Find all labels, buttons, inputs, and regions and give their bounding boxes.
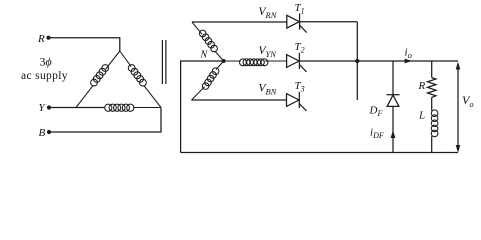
wire cathode bus vertical T1-T2-T3 <box>356 22 358 100</box>
wire DF branch upper <box>392 61 394 95</box>
svg-text:ac supply: ac supply <box>21 70 68 82</box>
thyristor T1 <box>287 14 307 33</box>
wire VRN line to thyristor T1 <box>192 21 287 23</box>
transformer core bars <box>162 40 166 84</box>
terminal Y <box>47 105 51 109</box>
arrow iDF <box>391 130 396 138</box>
diode DF <box>387 95 400 107</box>
thyristor T2 <box>287 53 307 72</box>
svg-text:Y: Y <box>39 102 47 114</box>
primary winding delta left side <box>76 51 120 108</box>
arrow Vo measurement <box>456 62 461 153</box>
wire B to delta right vertex <box>49 108 161 133</box>
svg-text:VYN: VYN <box>259 45 278 59</box>
wire VBN line to thyristor T3 <box>192 99 287 101</box>
wire DF branch lower <box>392 106 394 152</box>
node N (star point) <box>222 59 226 63</box>
svg-text:N: N <box>200 50 209 61</box>
wire bottom rail <box>181 152 458 154</box>
wire neutral from N to left corner and down to bottom rail <box>181 61 224 153</box>
svg-text:io: io <box>405 47 412 61</box>
junction cathode bus <box>355 59 359 63</box>
inductor L <box>431 110 438 137</box>
svg-text:iDF: iDF <box>370 127 384 141</box>
svg-text:Vo: Vo <box>462 93 474 109</box>
wire T1 cathode to right bus corner <box>300 21 358 23</box>
wire Y to delta bottom side <box>49 107 104 109</box>
svg-text:L: L <box>418 110 425 122</box>
secondary winding VBN (B-phase, diagonal with coil) <box>192 61 224 100</box>
wire between R and L <box>431 97 433 110</box>
wire R to delta apex <box>49 38 120 51</box>
primary winding delta right side <box>120 51 161 108</box>
svg-text:3ϕ: 3ϕ <box>40 55 52 69</box>
svg-text:VBN: VBN <box>259 83 278 97</box>
svg-text:T2: T2 <box>295 41 305 55</box>
wire T2 cathode to load (positive rail) <box>299 60 458 62</box>
arrow io <box>405 59 412 64</box>
svg-text:T1: T1 <box>295 2 305 16</box>
secondary winding VRN (R-phase, diagonal with coil) <box>192 22 224 61</box>
svg-text:T3: T3 <box>295 80 305 94</box>
primary winding delta bottom side <box>76 104 161 111</box>
terminal R <box>46 36 50 40</box>
thyristor T3 <box>287 92 307 111</box>
wire below L <box>431 136 433 152</box>
secondary winding VYN (Y-phase, horizontal coil) <box>224 59 287 66</box>
wire load branch upper <box>431 61 433 78</box>
resistor R <box>428 78 436 98</box>
svg-text:DF: DF <box>369 105 383 119</box>
svg-text:R: R <box>418 80 426 92</box>
svg-text:R: R <box>37 33 45 45</box>
terminal B <box>47 130 51 134</box>
svg-text:B: B <box>39 127 46 139</box>
svg-text:VRN: VRN <box>259 6 278 20</box>
